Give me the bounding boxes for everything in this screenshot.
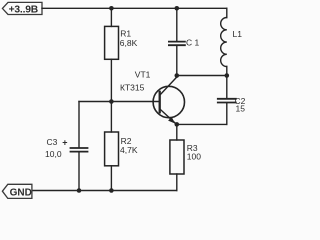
- node: ground bus / R2: [109, 188, 114, 193]
- svg-text:L1: L1: [233, 29, 243, 39]
- node: top bus / R1: [109, 6, 114, 11]
- svg-text:15: 15: [236, 104, 246, 114]
- transistor VT1 KT315: [120, 70, 185, 125]
- node: collector: [175, 73, 180, 78]
- resistor R2: [105, 102, 138, 166]
- svg-text:C3: C3: [47, 137, 58, 147]
- wire: R1 top lead: [110, 8, 112, 26]
- svg-text:VT1: VT1: [135, 70, 151, 80]
- wire: base: [79, 101, 159, 103]
- node: base / R1 R2: [109, 99, 114, 104]
- resistor R1: [105, 26, 138, 59]
- resistor R3: [170, 124, 201, 174]
- svg-text:10,0: 10,0: [45, 149, 62, 159]
- node: L1 / C2: [225, 73, 230, 78]
- power tag +3..9V: [2, 2, 42, 15]
- inductor L1: [221, 8, 243, 75]
- wire: R1 bottom lead to base node: [110, 59, 112, 101]
- wire: R2 bottom lead: [110, 166, 112, 191]
- capacitor C3: [45, 102, 88, 191]
- wire: collector node to tank right: [177, 75, 227, 77]
- svg-text:GND: GND: [10, 187, 32, 198]
- wire: C2 bottom to emitter node: [177, 123, 227, 125]
- svg-text:+: +: [62, 137, 67, 147]
- svg-text:6,8K: 6,8K: [120, 38, 138, 48]
- node: top bus / C1: [175, 6, 180, 11]
- svg-text:4,7K: 4,7K: [120, 145, 138, 155]
- node: ground bus / C3: [77, 188, 82, 193]
- svg-text:КТ315: КТ315: [120, 83, 145, 93]
- wire: bottom ground bus: [32, 190, 177, 192]
- ground tag GND: [2, 184, 32, 198]
- svg-text:C 1: C 1: [186, 38, 200, 48]
- capacitor C1: [169, 8, 200, 75]
- capacitor C2: [218, 76, 246, 125]
- wire: R3 bottom lead: [176, 174, 178, 191]
- svg-text:+3..9B: +3..9B: [9, 5, 38, 16]
- svg-text:100: 100: [187, 152, 201, 162]
- wire: top supply bus: [42, 7, 227, 9]
- node: emitter: [175, 122, 180, 127]
